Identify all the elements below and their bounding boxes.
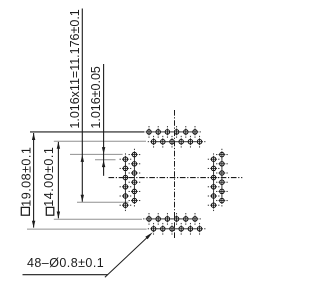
hole left inner column #2 [129,158,141,170]
extension line from top inner hole row [54,140,146,142]
hole left inner column #6 [129,195,141,207]
hole left outer column #4 [120,181,132,193]
extension line from left inner column top hole [70,153,123,155]
hole top inner row #1 [148,136,160,148]
hole bottom inner row #4 [171,213,183,225]
hole bottom inner row #6 [189,213,201,225]
hole right inner column #1 [208,153,220,165]
extension line from bottom inner hole row [54,218,142,220]
hole right outer column #4 [216,176,228,188]
svg-text:1.016±0.05: 1.016±0.05 [89,66,103,129]
hole left inner column #3 [129,167,141,179]
hole bottom outer row #1 [148,223,160,235]
hole right outer column #3 [216,167,228,179]
hole left inner column #4 [129,176,141,188]
hole bottom inner row #3 [162,213,174,225]
centerline through top outer hole row (long left extension) [30,131,144,133]
hole top inner row #5 [185,136,197,148]
hole right outer column #6 [216,195,228,207]
hole bottom outer row #2 [157,223,169,235]
hole bottom outer row #4 [175,223,187,235]
svg-text:14.00±0.1: 14.00±0.1 [42,147,56,207]
hole bottom inner row #5 [180,213,192,225]
hole top outer row #1 [143,126,155,138]
hole right outer column #5 [216,186,228,198]
extension line from left inner column bottom hole [77,201,129,203]
extension line from left outer column top hole [95,159,116,161]
hole top inner row #6 [194,136,206,148]
hole top inner row #2 [157,136,169,148]
hole top outer row #4 [171,126,183,138]
hole bottom outer row #6 [194,223,206,235]
hole right inner column #3 [208,172,220,184]
hole right inner column #2 [208,163,220,175]
hole right inner column #6 [208,199,220,211]
hole top inner row #3 [166,136,178,148]
hole bottom outer row #3 [166,223,178,235]
hole left outer column #5 [120,190,132,202]
label square 14.00+/-0.1 (rotated) [42,147,56,215]
hole bottom inner row #2 [152,213,164,225]
hole left inner column #1 [129,149,141,161]
hole top inner row #4 [175,136,187,148]
hole right inner column #4 [208,181,220,193]
leader underline for hole size label [23,274,108,276]
hole right outer column #2 [216,158,228,170]
leader line with arrow to hole [105,232,153,277]
hole left inner column #5 [129,186,141,198]
hole right inner column #5 [208,190,220,202]
hole top outer row #3 [162,126,174,138]
vertical center axis (dash-dot) [174,110,176,238]
svg-text:48–Ø0.8±0.1: 48–Ø0.8±0.1 [27,256,104,270]
svg-text:1.016x11=11.176±0.1: 1.016x11=11.176±0.1 [68,9,82,128]
label 1.016x11=11.176+/-0.1 (rotated) [68,9,82,128]
hole top outer row #6 [189,126,201,138]
dimension line 19.08 vertical [32,133,35,228]
hole bottom outer row #5 [185,223,197,235]
hole left outer column #1 [120,153,132,165]
dimension line 14.00 vertical [57,142,60,219]
label 1.016+/-0.05 (rotated) [89,66,103,129]
hole top outer row #5 [180,126,192,138]
hole right outer column #1 [216,149,228,161]
hole left outer column #3 [120,172,132,184]
hole bottom inner row #1 [143,213,155,225]
dimension line 1.016 vertical [102,64,105,176]
dimension line 1.016x11=11.176 vertical [81,9,84,202]
hole left outer column #6 [120,199,132,211]
extension line from bottom outer hole row [27,228,147,230]
hole top outer row #2 [152,126,164,138]
hole left outer column #2 [120,163,132,175]
svg-text:19.08±0.1: 19.08±0.1 [19,147,33,207]
horizontal center axis (dash-dot) [109,177,243,179]
label square 19.08+/-0.1 (rotated) [19,147,33,215]
label 48-diam 0.8+/-0.1 [27,256,104,270]
